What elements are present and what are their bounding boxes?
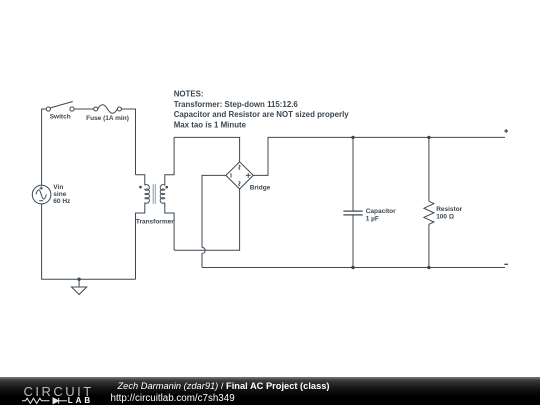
wire source bottom to ground node and transformer [42,204,136,279]
ground symbol [72,279,87,294]
junction dots [77,136,430,281]
bottom rail [202,267,505,269]
logo resistor squiggle and diode [22,398,67,404]
footer bar [0,377,540,405]
bridge plus mark [246,173,251,178]
svg-text:Transformer: Step-down 115:12.: Transformer: Step-down 115:12.6 [174,100,299,109]
bridge minus mark [230,173,232,177]
notes text [174,90,350,130]
transformer T1 core [153,184,155,204]
transformer T1 primary winding [136,175,150,279]
wire bridge AC2 to secondary bottom [174,189,240,250]
resistor R1 [424,137,434,267]
transformer T1 secondary winding [160,137,174,250]
svg-text:Max tao is 1 Minute: Max tao is 1 Minute [174,121,247,130]
svg-text:Vin: Vin [53,184,63,191]
bridge rectifier D1 diamond [226,162,253,189]
footer title text [118,381,330,391]
transformer polarity dots [139,186,168,189]
svg-text:NOTES:: NOTES: [174,90,204,99]
svg-text:Switch: Switch [50,114,71,121]
svg-text:100 Ω: 100 Ω [436,213,454,220]
wire bridge plus to top rail [253,137,505,175]
switch SW1 [46,102,74,112]
bridge AC tilde bottom [239,181,240,186]
svg-text:LAB: LAB [68,396,93,405]
wire bridge minus to bottom rail with hop [202,175,226,267]
wire fuse to transformer primary top [121,109,135,175]
capacitor C1 [343,137,362,267]
wire switch to fuse [74,108,94,110]
svg-text:sine: sine [53,191,66,198]
svg-text:Bridge: Bridge [250,184,271,191]
svg-text:Fuse (1A min): Fuse (1A min) [86,115,129,122]
svg-text:Resistor: Resistor [436,206,462,213]
svg-text:1 µF: 1 µF [366,215,379,222]
wire source top to switch [42,109,47,185]
svg-text:60 Hz: 60 Hz [53,198,71,205]
footer url text [111,393,235,404]
fuse F1 (1A min) [94,105,122,114]
bridge AC tilde top [239,165,240,170]
output minus terminal [504,263,508,265]
svg-text:Transformer: Transformer [136,219,174,226]
voltage source V1 [32,185,51,204]
svg-text:Capacitor: Capacitor [366,208,396,215]
output plus terminal [504,129,508,133]
svg-text:Capacitor and Resistor are NOT: Capacitor and Resistor are NOT sized pro… [174,110,350,119]
wire secondary top to bridge AC1 [174,137,240,161]
